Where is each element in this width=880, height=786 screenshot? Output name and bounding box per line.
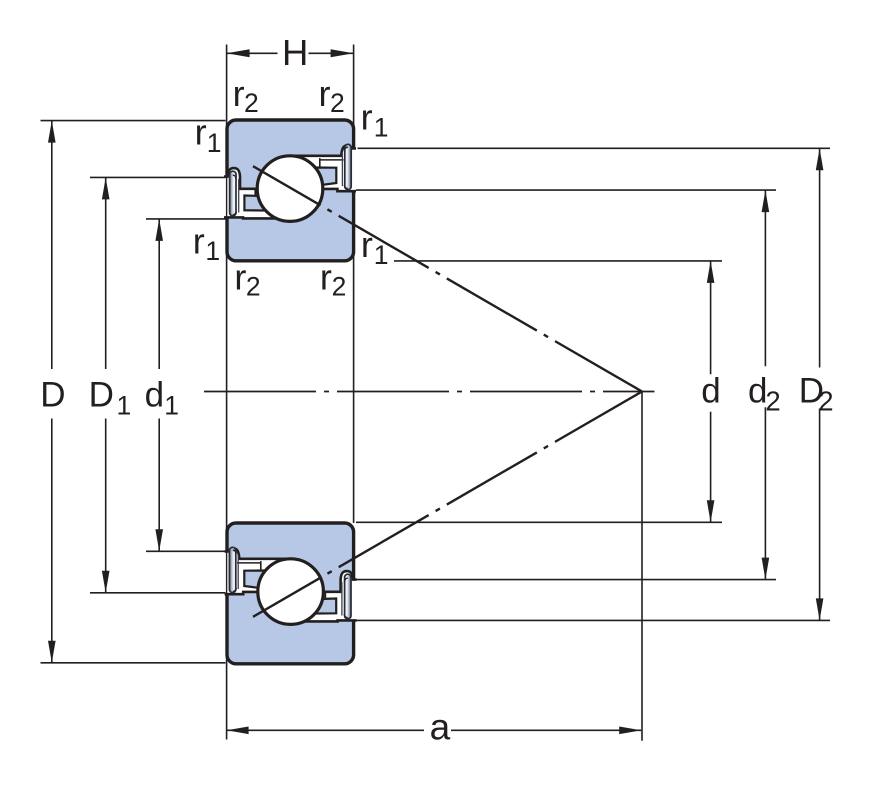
dimension d1 xyxy=(145,219,226,551)
svg-text:r: r xyxy=(234,257,246,298)
dimension D xyxy=(40,121,225,663)
fillet label r2 top-left xyxy=(233,73,259,118)
contact angle line upper xyxy=(253,166,642,391)
svg-text:2: 2 xyxy=(818,385,833,416)
svg-text:1: 1 xyxy=(117,391,132,421)
svg-text:D: D xyxy=(40,376,65,415)
top bearing cross-section xyxy=(223,120,357,261)
svg-text:r: r xyxy=(361,97,373,138)
svg-text:1: 1 xyxy=(207,128,222,158)
dimension H xyxy=(227,32,354,73)
dimension D1 xyxy=(89,177,226,592)
svg-text:2: 2 xyxy=(244,88,259,118)
fillet label r2 top-right xyxy=(319,73,345,118)
horizontal centre line xyxy=(204,391,655,393)
extension line left face (H / a datum) xyxy=(226,45,228,740)
fillet label r2 bottom-left xyxy=(234,257,260,302)
svg-text:D: D xyxy=(89,376,114,415)
dimension D2 xyxy=(356,148,833,620)
svg-text:r: r xyxy=(319,73,331,114)
thin line across left notches xyxy=(226,176,228,219)
svg-text:1: 1 xyxy=(374,112,389,142)
fillet label r2 bottom-right xyxy=(320,257,346,302)
svg-text:r: r xyxy=(320,257,332,298)
contact angle line lower xyxy=(253,392,642,617)
svg-text:2: 2 xyxy=(246,271,261,301)
svg-text:2: 2 xyxy=(332,271,347,301)
fillet label r1 bore-left xyxy=(193,220,220,266)
apex vertical line xyxy=(641,392,643,741)
svg-text:r: r xyxy=(193,220,205,261)
svg-text:H: H xyxy=(282,32,308,73)
svg-text:r: r xyxy=(233,73,245,114)
svg-text:d: d xyxy=(701,372,720,411)
svg-text:1: 1 xyxy=(164,391,179,421)
svg-text:1: 1 xyxy=(205,236,220,266)
svg-text:r: r xyxy=(195,112,207,153)
svg-text:r: r xyxy=(361,224,373,265)
dimension a xyxy=(227,707,642,748)
fillet label r1 bore-right xyxy=(361,224,389,270)
svg-text:a: a xyxy=(430,707,451,748)
dimension d2 xyxy=(356,190,781,579)
fillet label r1 outer-left xyxy=(195,112,222,158)
svg-text:1: 1 xyxy=(374,240,389,270)
dimension d xyxy=(356,261,722,522)
svg-text:2: 2 xyxy=(765,385,780,416)
extension line right face (H datum / bore) xyxy=(353,45,355,524)
svg-text:d: d xyxy=(145,376,164,415)
fillet label r1 outer-right xyxy=(361,97,389,143)
svg-text:2: 2 xyxy=(330,88,345,118)
bottom bearing cross-section (mirrored) xyxy=(224,523,358,664)
